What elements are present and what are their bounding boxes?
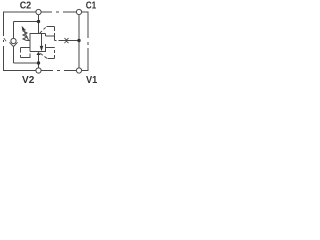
svg-text:V2: V2 — [22, 75, 35, 86]
svg-text:C2: C2 — [20, 1, 32, 12]
svg-text:C1: C1 — [86, 1, 97, 12]
svg-text:V1: V1 — [86, 75, 97, 86]
